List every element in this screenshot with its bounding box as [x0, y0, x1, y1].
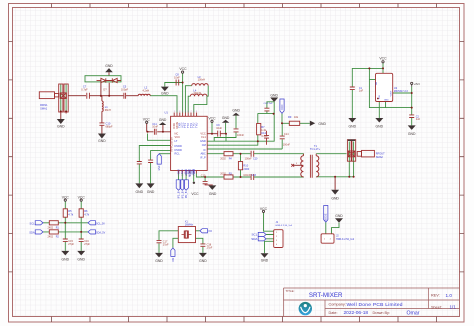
svg-text:C10: C10	[253, 157, 258, 160]
svg-text:1uF: 1uF	[359, 90, 364, 93]
svg-text:GND: GND	[155, 259, 163, 263]
svg-text:100nF: 100nF	[245, 157, 253, 160]
svg-text:10nF: 10nF	[174, 76, 180, 79]
svg-text:SMA1: SMA1	[40, 107, 48, 111]
svg-text:U1: U1	[165, 111, 169, 115]
svg-text:TITLE:: TITLE:	[286, 289, 295, 293]
svg-text:XIN: XIN	[172, 258, 175, 262]
svg-text:ENX: ENX	[158, 165, 161, 170]
svg-text:VCC: VCC	[379, 57, 387, 61]
svg-text:GND: GND	[136, 190, 144, 194]
svg-text:27pF: 27pF	[207, 247, 213, 250]
svg-text:27pF: 27pF	[163, 244, 169, 247]
svg-text:SCL_5V: SCL_5V	[96, 223, 105, 226]
svg-text:HDR-F-2.54_1x2: HDR-F-2.54_1x2	[336, 238, 355, 241]
svg-text:GND: GND	[209, 192, 217, 196]
svg-text:VCO: VCO	[281, 104, 284, 109]
svg-text:TC1-1T+: TC1-1T+	[310, 147, 321, 151]
svg-text:IF_P: IF_P	[200, 156, 206, 160]
svg-text:IF: IF	[203, 148, 206, 152]
svg-text:100nF: 100nF	[243, 174, 251, 177]
svg-text:GND: GND	[270, 94, 278, 98]
svg-text:68nH: 68nH	[105, 109, 111, 112]
svg-text:SRT-MIXER: SRT-MIXER	[309, 292, 343, 299]
svg-text:SDA: SDA	[29, 231, 35, 235]
svg-text:SDA: SDA	[251, 237, 257, 241]
svg-text:2: 2	[330, 238, 331, 240]
svg-text:1/1: 1/1	[450, 305, 457, 310]
svg-text:2: 2	[177, 111, 178, 113]
svg-text:0.7pF: 0.7pF	[81, 89, 88, 92]
svg-text:6: 6	[188, 111, 189, 113]
svg-text:FL1: FL1	[201, 135, 206, 139]
svg-text:GND: GND	[331, 197, 339, 201]
svg-text:ABC: ABC	[200, 152, 205, 156]
svg-text:GND: GND	[161, 92, 169, 96]
svg-text:100nH: 100nH	[193, 92, 201, 95]
svg-text:5: 5	[185, 111, 186, 113]
svg-text:1: 1	[174, 111, 175, 113]
svg-text:4.7k: 4.7k	[68, 213, 74, 217]
svg-text:GND: GND	[408, 132, 416, 136]
svg-text:IF2_B: IF2_B	[180, 191, 184, 198]
svg-text:LT: LT	[175, 139, 178, 143]
svg-text:NC: NC	[175, 131, 179, 135]
svg-text:4: 4	[276, 244, 277, 246]
svg-text:9: 9	[196, 111, 197, 113]
svg-text:4.2nH: 4.2nH	[142, 89, 149, 92]
svg-text:16MHz: 16MHz	[185, 223, 194, 227]
svg-text:GND: GND	[261, 259, 269, 263]
svg-text:GND: GND	[222, 116, 230, 120]
svg-text:SCL: SCL	[180, 168, 184, 174]
svg-text:VIN: VIN	[376, 81, 378, 85]
svg-text:100nF: 100nF	[283, 143, 291, 146]
svg-text:C19: C19	[201, 175, 206, 178]
svg-text:VCC: VCC	[179, 67, 187, 71]
svg-text:GND: GND	[147, 190, 155, 194]
svg-text:DVDD: DVDD	[175, 148, 182, 152]
svg-text:3.3nF: 3.3nF	[261, 135, 268, 138]
svg-text:2002: 2002	[220, 157, 226, 160]
svg-text:DVDD: DVDD	[175, 144, 182, 148]
svg-text:VCC: VCC	[175, 135, 181, 139]
svg-text:1.0: 1.0	[446, 293, 453, 298]
svg-text:1uF: 1uF	[416, 118, 421, 121]
svg-text:SDA_5V: SDA_5V	[96, 232, 106, 235]
svg-text:RFIN1: RFIN1	[40, 103, 48, 107]
svg-text:2: 2	[276, 236, 277, 238]
svg-text:GND: GND	[349, 124, 357, 128]
svg-text:27pF: 27pF	[84, 243, 90, 246]
svg-text:C6 2.2nF: C6 2.2nF	[264, 103, 274, 105]
svg-text:GND: GND	[384, 99, 389, 101]
svg-text:GND: GND	[376, 124, 384, 128]
svg-text:TYU: TYU	[194, 123, 198, 128]
svg-text:Company:: Company:	[329, 303, 346, 307]
svg-text:4.7k: 4.7k	[84, 213, 90, 217]
svg-text:SCL: SCL	[30, 222, 36, 226]
svg-text:R9: R9	[288, 115, 292, 119]
svg-text:2022-06-18: 2022-06-18	[344, 310, 369, 316]
svg-text:VCC: VCC	[191, 192, 199, 196]
svg-text:100nF: 100nF	[237, 134, 245, 137]
svg-text:MIC5317-3.3: MIC5317-3.3	[394, 90, 408, 93]
svg-text:2402: 2402	[48, 235, 54, 238]
svg-text:10uF: 10uF	[216, 127, 222, 130]
svg-text:+3V3: +3V3	[414, 82, 421, 86]
svg-text:3: 3	[276, 240, 277, 242]
svg-text:14: 14	[189, 175, 191, 177]
svg-text:100nH: 100nH	[198, 79, 206, 82]
svg-text:CM: CM	[202, 143, 206, 147]
svg-text:GND: GND	[232, 108, 240, 112]
svg-text:GND: GND	[318, 122, 326, 126]
svg-text:REV:: REV:	[431, 294, 440, 298]
svg-text:100pF: 100pF	[121, 89, 129, 92]
svg-text:4: 4	[182, 111, 183, 113]
svg-text:HDR-F 2.54_1x4: HDR-F 2.54_1x4	[276, 225, 293, 227]
svg-text:GND: GND	[199, 259, 207, 263]
svg-text:13: 13	[185, 175, 187, 177]
svg-text:2000: 2000	[243, 167, 249, 171]
svg-text:1: 1	[324, 238, 325, 240]
svg-text:12: 12	[181, 175, 183, 177]
svg-text:C13: C13	[252, 174, 257, 177]
svg-text:2002: 2002	[220, 172, 226, 175]
svg-text:15: 15	[193, 175, 195, 177]
svg-text:3: 3	[179, 111, 180, 113]
svg-text:8: 8	[193, 111, 194, 113]
svg-text:XO: XO	[208, 229, 212, 233]
svg-text:27pF: 27pF	[68, 243, 74, 246]
svg-text:GND: GND	[335, 214, 343, 218]
svg-text:IF1_B: IF1_B	[177, 191, 181, 198]
svg-text:10nF: 10nF	[152, 126, 158, 129]
svg-text:GND: GND	[57, 125, 65, 129]
svg-text:11: 11	[178, 175, 180, 177]
svg-text:VCC: VCC	[200, 131, 206, 135]
svg-text:SDA: SDA	[176, 169, 180, 175]
svg-text:Omar: Omar	[407, 310, 420, 316]
svg-text:MODE: MODE	[325, 213, 328, 221]
svg-text:GND: GND	[62, 257, 70, 261]
svg-text:GND: GND	[105, 64, 113, 68]
svg-text:Drawn By:: Drawn By:	[373, 311, 391, 315]
svg-text:Sheet:: Sheet:	[431, 305, 442, 309]
svg-text:VDD: VDD	[192, 169, 196, 175]
svg-text:GND: GND	[200, 139, 206, 143]
svg-text:PD_B: PD_B	[184, 191, 188, 198]
svg-text:SMA2: SMA2	[376, 155, 384, 159]
svg-text:ENX: ENX	[184, 169, 188, 175]
svg-text:7: 7	[191, 111, 192, 113]
svg-text:1: 1	[276, 232, 277, 234]
svg-text:GND: GND	[98, 139, 106, 143]
svg-text:Well Done PCB Limited: Well Done PCB Limited	[347, 302, 403, 308]
svg-text:RCL: RCL	[175, 152, 181, 156]
svg-text:1.4k: 1.4k	[261, 129, 266, 132]
svg-text:680pF: 680pF	[106, 126, 114, 129]
svg-text:VOUT: VOUT	[391, 90, 393, 97]
svg-text:RFFC5072A: RFFC5072A	[169, 137, 173, 152]
svg-text:EN: EN	[379, 95, 381, 98]
svg-text:GND: GND	[77, 257, 85, 261]
svg-text:GND: GND	[159, 118, 167, 122]
svg-text:2402: 2402	[48, 226, 54, 229]
svg-text:C14: C14	[284, 133, 289, 136]
svg-text:RFOUT: RFOUT	[376, 151, 385, 155]
svg-text:Date:: Date:	[329, 311, 338, 315]
